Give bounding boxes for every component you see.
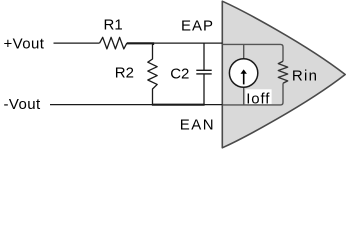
svg-text:C2: C2 — [170, 66, 189, 83]
wire current-source bottom lead — [243, 87, 245, 105]
op-amp U1 (comparator triangle body) — [222, 1, 345, 148]
svg-text:Ioff: Ioff — [246, 91, 270, 108]
capacitor C2 (vertical, two plates) — [196, 43, 211, 105]
wire R2-to-C2 bottom segment (thick) — [152, 104, 205, 106]
resistor Rin (vertical zigzag inside op-amp) — [278, 61, 287, 83]
wire R1-to-R2 top segment (thick) — [127, 43, 153, 45]
wire top (R1 to triangle edge, node EAP) — [127, 42, 222, 44]
wire -Vout lead (bottom horizontal, node EAN) — [50, 104, 222, 106]
svg-text:R1: R1 — [104, 17, 123, 34]
Ioff label background box — [245, 89, 271, 104]
wire +Vout lead (top horizontal, left of R1) — [54, 42, 100, 44]
svg-text:+Vout: +Vout — [4, 35, 45, 52]
svg-text:Rin: Rin — [292, 68, 318, 85]
svg-text:-Vout: -Vout — [4, 96, 41, 113]
resistor R1 (horizontal zigzag) — [100, 37, 127, 49]
wire current-source top lead — [243, 44, 245, 58]
resistor R2 (vertical zigzag with leads) — [148, 43, 157, 105]
svg-text:EAP: EAP — [181, 18, 214, 35]
svg-text:EAN: EAN — [180, 117, 215, 134]
wire inner loop top (EAP rail inside op-amp) — [223, 44, 284, 61]
wire inner loop bottom (EAN rail inside op-amp) — [223, 83, 284, 105]
current source Ioff (circle with up arrow) — [229, 59, 257, 87]
svg-text:R2: R2 — [115, 64, 134, 81]
